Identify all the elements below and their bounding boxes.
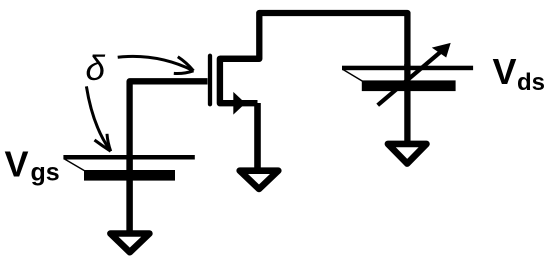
ground (below Vgs battery) [110, 234, 149, 253]
variable battery arrowhead [432, 43, 451, 58]
variable battery arrow shaft [378, 49, 444, 105]
annotation arrow to Vgs battery: open arrowhead [95, 134, 111, 151]
wire: Vds battery through-wire down to ground [404, 64, 410, 141]
wire: Vgs battery through-wire down to ground [126, 155, 133, 231]
battery V_gs top plate (long thin) [63, 155, 194, 160]
ground (below transistor source) [240, 171, 279, 189]
battery V_gs thin connecting line [65, 159, 86, 171]
wire: drain top wire from transistor drain up, across, down to Vds battery [220, 13, 408, 66]
battery V_ds thin connecting line [343, 70, 363, 82]
wire: gate wire from Vgs battery up and right to gate [130, 81, 208, 157]
battery V_gs bottom plate (short thick) [84, 170, 175, 181]
svg-text:Vgs: Vgs [5, 144, 60, 187]
annotation arrow from delta down to Vgs battery (curved shaft) [86, 86, 109, 149]
transistor Q1 channel bar with drain and source leads [220, 59, 259, 103]
annotation arrow from delta to gate wire (curved shaft) [118, 56, 193, 70]
svg-text:Vds: Vds [493, 51, 546, 96]
transistor Q1 gate bar [208, 56, 212, 104]
wire: source down to ground [254, 103, 261, 168]
battery V_ds bottom plate (short thick) [362, 80, 456, 91]
battery V_ds top plate (long thin) [342, 66, 473, 71]
annotation arrow to gate: open arrowhead [174, 57, 194, 74]
svg-text:δ: δ [86, 49, 106, 88]
ground (below Vds battery) [388, 144, 427, 164]
transistor Q1 source arrow [233, 92, 245, 115]
